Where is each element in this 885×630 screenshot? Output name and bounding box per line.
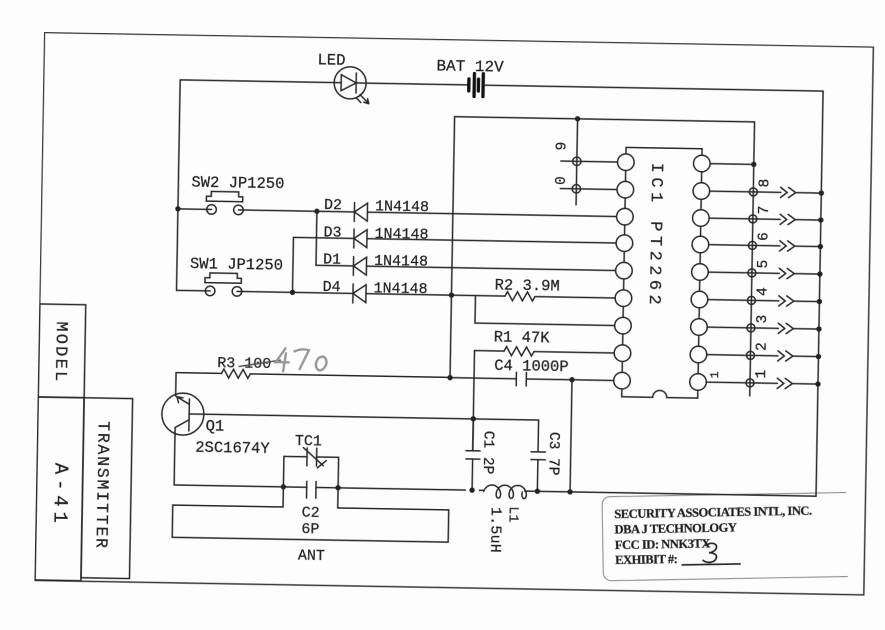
svg-text:1: 1	[708, 371, 722, 378]
junction: bus row 7	[818, 217, 823, 222]
junction: bus row 6	[818, 244, 823, 249]
svg-text:TC1: TC1	[295, 433, 322, 450]
junction: rail at TC1 right	[335, 485, 340, 490]
output arrow chevrons	[780, 241, 795, 251]
junction: bus row 8	[819, 190, 824, 195]
output arrow chevrons	[779, 268, 794, 278]
output arrow chevrons	[778, 351, 793, 361]
diode D1	[316, 256, 616, 280]
wire: top rail from vertical to LED	[180, 80, 334, 83]
junction: bus row 5	[817, 271, 822, 276]
wire: LED to battery	[366, 83, 468, 85]
wire: top-left vertical from LED wire down to SW1	[177, 80, 181, 290]
svg-text:C3 7P: C3 7P	[544, 432, 561, 476]
trimmer capacitor TC1	[283, 447, 338, 488]
junction: bus row 1	[815, 381, 820, 386]
output arrow chevrons	[779, 296, 794, 306]
svg-text:1N4148: 1N4148	[373, 280, 427, 298]
output arrow chevrons	[780, 214, 795, 224]
wire: pin to arrow (row 8)	[710, 191, 781, 192]
wire: pin to arrow (row 6)	[709, 245, 780, 246]
wire: battery to right bus	[485, 85, 823, 91]
svg-text:1N4148: 1N4148	[374, 253, 428, 271]
capacitor C3	[530, 420, 546, 491]
junction: v0 at SW2	[175, 206, 180, 211]
svg-text:LED: LED	[317, 51, 345, 69]
wire: arrow to bus (row 8)	[796, 192, 822, 194]
svg-text:C2: C2	[301, 505, 319, 522]
output arrow chevrons	[778, 323, 793, 333]
wire: C4 node to pin r9	[572, 379, 613, 382]
output row 1	[706, 369, 821, 389]
junction: bus row 4	[817, 299, 822, 304]
handwritten 470	[276, 348, 327, 372]
wire: arrow to bus (row 6)	[795, 245, 821, 247]
wire: Q1 base line to C3	[189, 414, 538, 420]
switch SW1 JP1250	[176, 272, 353, 298]
capacitor C1	[465, 419, 480, 491]
wire: VCC vertical (rail feed)	[450, 117, 455, 378]
wire: D2 node down to D1 row	[315, 211, 318, 265]
transistor Q1	[161, 393, 204, 436]
junction: rail at TC1 left	[281, 484, 286, 489]
svg-text:9: 9	[555, 142, 571, 151]
IC1 left pins	[614, 154, 635, 389]
wire: arrow to bus (row 5)	[794, 273, 820, 275]
svg-text:TRANSMITTER: TRANSMITTER	[91, 421, 112, 550]
wire: IC top rail	[455, 117, 755, 122]
strike-through on 100	[239, 359, 280, 367]
junction: 9/0 drop on rail	[575, 116, 580, 121]
crossed circle node 4	[747, 296, 755, 304]
junction: C4 right node	[569, 377, 574, 382]
svg-text:Q1: Q1	[205, 417, 224, 435]
svg-text:7: 7	[757, 206, 773, 215]
crossed circle node 7	[749, 215, 757, 223]
output row 6	[709, 231, 824, 251]
crossed circle node 3	[747, 324, 755, 332]
svg-text:SW1 JP1250: SW1 JP1250	[190, 255, 283, 275]
wire: pin to arrow (row 2)	[707, 355, 778, 356]
resistor R2	[475, 291, 615, 302]
svg-text:2: 2	[755, 342, 771, 351]
svg-text:4: 4	[756, 287, 772, 296]
capacitor C4	[450, 371, 572, 387]
output row 8	[710, 178, 825, 198]
svg-text:DBA J TECHNOLOGY: DBA J TECHNOLOGY	[614, 520, 737, 536]
svg-text:C4 1000P: C4 1000P	[494, 357, 569, 376]
TRANSMITTER title box	[81, 398, 133, 579]
svg-text:BAT 12V: BAT 12V	[436, 57, 504, 76]
wire: pin to arrow (row 5)	[708, 272, 779, 273]
wire: R3 left leg down to Q1 collector	[175, 373, 177, 396]
wire: Q1 emitter down to rail	[174, 428, 175, 485]
crossed circle node 5	[748, 269, 756, 277]
svg-text:5: 5	[756, 260, 772, 269]
wire: pin to arrow (row 4)	[708, 300, 779, 301]
svg-text:SW2 JP1250: SW2 JP1250	[191, 174, 284, 194]
wire: arrow to bus (row 4)	[794, 300, 820, 302]
wire: R1 left leg down	[473, 351, 475, 451]
wire: 9 to pin 1	[561, 160, 617, 163]
svg-text:IC1 PT2262: IC1 PT2262	[644, 163, 665, 305]
antenna ANT block	[172, 485, 449, 542]
diode D4	[353, 284, 476, 305]
svg-text:ANT: ANT	[298, 548, 325, 565]
wire: crossed-circle vertical	[750, 122, 755, 396]
svg-text:1N4148: 1N4148	[374, 226, 428, 244]
junction: SW1/D4 node	[290, 290, 295, 295]
svg-text:A-41: A-41	[48, 463, 71, 523]
capacitor C2 (on rail)	[307, 481, 317, 498]
LED	[334, 67, 370, 104]
wire: C4 node down to bottom rail	[570, 380, 572, 492]
inductor L1	[484, 485, 527, 499]
junction: rail at C3/L1	[535, 489, 540, 494]
svg-text:6: 6	[756, 232, 772, 241]
switch SW2 JP1250	[178, 191, 317, 216]
svg-text:EXHIBIT #:: EXHIBIT #:	[615, 552, 678, 567]
IC1 right pins	[690, 155, 711, 390]
junction: rail at C4 branch	[567, 489, 572, 494]
wire: pin to arrow (row 1)	[706, 382, 777, 383]
MODEL title box	[38, 304, 86, 398]
svg-text:MODEL: MODEL	[50, 321, 70, 383]
wire: arrow to bus (row 3)	[793, 328, 819, 330]
wire: pin r1 to bus vertical	[710, 163, 754, 166]
junction: rail at C1	[469, 487, 474, 492]
svg-text:2SC1674Y: 2SC1674Y	[195, 439, 270, 458]
node 0 circle	[572, 185, 581, 194]
output row 3	[707, 314, 822, 334]
wire: arrow to bus (row 2)	[793, 355, 819, 357]
exhibit sticker	[602, 492, 855, 580]
wire: bottom rail (emitter/ground rail)	[175, 485, 816, 496]
junction: base line at C1	[471, 416, 476, 421]
svg-text:FCC ID: NNK3TX: FCC ID: NNK3TX	[615, 536, 711, 552]
handwritten 3	[703, 543, 717, 562]
junction: D2 node	[314, 209, 319, 214]
wire: 0 to pin 2	[560, 188, 616, 191]
diode D2	[317, 202, 617, 226]
output row 2	[707, 341, 822, 361]
junction: bus row 2	[816, 354, 821, 359]
wire: arrow to bus (row 1)	[792, 383, 818, 385]
wire: right bus vertical	[816, 91, 823, 496]
junction: D4 row at VCC vertical	[449, 292, 454, 297]
svg-text:C1 2P: C1 2P	[479, 431, 496, 475]
output row 4	[708, 286, 823, 306]
wire: arrow to bus (row 7)	[795, 219, 821, 221]
output row 5	[708, 259, 823, 279]
resistor R3	[176, 368, 450, 382]
wire: pin to arrow (row 3)	[707, 327, 778, 328]
resistor R1	[474, 346, 614, 357]
svg-text:1.5uH: 1.5uH	[486, 507, 504, 553]
output arrow chevrons	[777, 378, 792, 388]
svg-text:D4: D4	[322, 279, 340, 296]
crossed circle node 1	[746, 379, 754, 387]
svg-text:3: 3	[755, 315, 771, 324]
wire: 9/0 vertical	[576, 119, 578, 205]
output arrow chevrons	[781, 187, 796, 197]
wire: pin to arrow (row 7)	[709, 218, 780, 219]
junction: r1 at crossed vertical	[751, 162, 756, 167]
crossed circle node 8	[749, 188, 757, 196]
svg-text:8: 8	[757, 179, 773, 188]
svg-text:6P: 6P	[301, 521, 319, 538]
diode D3	[293, 228, 616, 253]
svg-text:0: 0	[554, 176, 570, 185]
wire: R2 bypass to pin r7	[475, 296, 615, 326]
crossed circle node 6	[748, 241, 756, 249]
svg-text:1: 1	[754, 370, 770, 379]
wire: D3 row to SW1 node	[291, 237, 294, 292]
svg-text:R1 47K: R1 47K	[494, 328, 551, 347]
junction: C4 left node	[447, 375, 452, 380]
junction: bus row 3	[816, 326, 821, 331]
battery BAT 12V	[469, 73, 484, 96]
output row 7	[709, 205, 824, 225]
IC1 body	[622, 147, 702, 398]
node 9 circle	[573, 157, 582, 166]
svg-text:L1: L1	[505, 506, 520, 522]
A-41 title box	[35, 397, 84, 581]
svg-text:D3: D3	[323, 224, 341, 241]
crossed circle node 2	[746, 351, 754, 359]
